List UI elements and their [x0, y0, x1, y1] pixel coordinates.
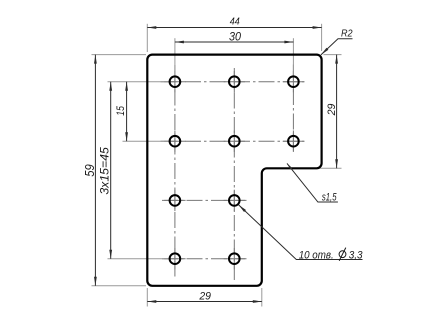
hole 10 (row4 col2) [229, 253, 240, 264]
dimension line 29 right [336, 55, 338, 169]
dimension line 3x15=45 [110, 82, 112, 259]
svg-text:R2: R2 [341, 28, 353, 39]
plate outline [147, 55, 321, 286]
svg-text:29: 29 [326, 104, 338, 117]
crosshairs holes row2 [164, 131, 304, 152]
hole 5 (row2 col2) [229, 136, 240, 147]
centerline column 3 [292, 65, 294, 152]
extension line 29 right top [324, 54, 342, 56]
svg-text:3,3: 3,3 [349, 249, 364, 261]
centerline row 2 [161, 140, 307, 142]
svg-text:29: 29 [198, 291, 211, 303]
extension line 30 right [292, 38, 294, 76]
hole 3 (row1 col3) [288, 76, 299, 87]
dimension line 30 [175, 41, 294, 43]
crosshairs holes row3 [164, 190, 245, 211]
hole 6 (row2 col3) [288, 136, 299, 147]
hole 1 (row1 col1) [170, 76, 181, 87]
crosshairs holes row1 [164, 71, 304, 92]
hole 7 (row3 col1) [170, 195, 181, 206]
extension line 59 bottom [92, 285, 147, 287]
extension line row4 left [108, 258, 170, 260]
leader s1,5 [287, 163, 338, 202]
hole 9 (row4 col1) [170, 253, 181, 264]
svg-text:44: 44 [230, 16, 240, 27]
extension line 29 bottom right [261, 288, 263, 307]
centerline column 1 [174, 65, 176, 277]
svg-text:s1,5: s1,5 [322, 191, 337, 203]
svg-text:59: 59 [83, 164, 97, 177]
crosshairs holes row4 [164, 248, 245, 269]
centerline row 1 [161, 81, 307, 83]
dimension line 15 [126, 82, 128, 142]
centerline row 4 [162, 258, 247, 260]
dimension line 29 bottom [147, 301, 261, 303]
extension line row2 left [123, 140, 170, 142]
extension line row1 left [108, 81, 170, 83]
centerline row 3 [162, 199, 247, 201]
leader 10 holes [239, 205, 363, 260]
diameter symbol [339, 251, 346, 258]
hole 4 (row2 col1) [170, 136, 181, 147]
svg-text:30: 30 [229, 29, 241, 43]
extension line 44/30 right corner [321, 24, 323, 51]
centerline column 2 [233, 68, 235, 280]
extension line 44 left [146, 24, 148, 52]
dimension line 59 [94, 55, 96, 286]
extension line 30 left [174, 38, 176, 76]
hole 2 (row1 col2) [229, 76, 240, 87]
svg-text:15: 15 [115, 105, 127, 115]
svg-text:3x15=45: 3x15=45 [100, 147, 112, 195]
extension line 29 right bottom [318, 167, 342, 169]
hole 8 (row3 col2) [229, 195, 240, 206]
leader R2 [321, 39, 353, 55]
extension line 29 bottom left [146, 288, 148, 307]
extension line 59 top [92, 54, 147, 56]
svg-text:10 отв.: 10 отв. [299, 249, 334, 261]
dimension line 44 [147, 27, 321, 29]
